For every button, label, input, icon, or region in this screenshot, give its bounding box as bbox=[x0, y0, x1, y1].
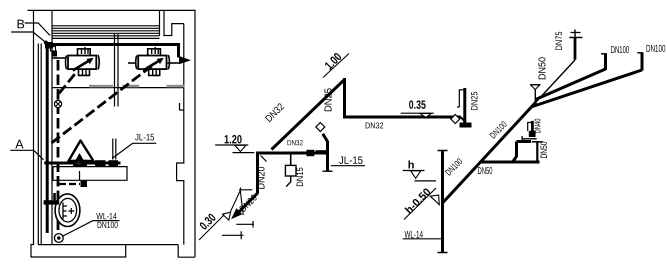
svg-text:B: B bbox=[16, 17, 24, 31]
svg-text:DN50: DN50 bbox=[538, 57, 549, 80]
svg-text:1.20: 1.20 bbox=[224, 132, 242, 146]
svg-text:DN25: DN25 bbox=[324, 88, 335, 112]
svg-text:DN15: DN15 bbox=[295, 167, 305, 187]
svg-text:DN75: DN75 bbox=[554, 32, 564, 51]
svg-text:0.35: 0.35 bbox=[409, 98, 426, 112]
svg-text:JL-15: JL-15 bbox=[339, 155, 363, 167]
svg-text:DN100: DN100 bbox=[646, 44, 666, 55]
svg-text:DN100: DN100 bbox=[611, 45, 630, 56]
svg-text:DN40: DN40 bbox=[534, 118, 543, 133]
svg-text:DN32: DN32 bbox=[287, 138, 303, 147]
svg-text:DN50: DN50 bbox=[477, 166, 492, 177]
svg-text:JL-15: JL-15 bbox=[135, 132, 155, 143]
svg-text:DN100: DN100 bbox=[97, 220, 118, 230]
svg-text:DN25: DN25 bbox=[470, 92, 480, 111]
svg-text:DN32: DN32 bbox=[365, 120, 384, 130]
svg-text:DN50: DN50 bbox=[539, 142, 549, 159]
svg-text:A: A bbox=[15, 137, 24, 151]
svg-text:DN20: DN20 bbox=[257, 166, 268, 189]
svg-text:h: h bbox=[408, 159, 415, 171]
